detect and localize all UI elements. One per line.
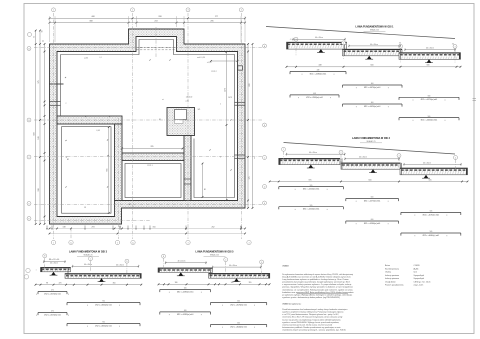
left dimension row 1 bbox=[34, 30, 37, 225]
svg-text:SKALA 1:25: SKALA 1:25 bbox=[83, 254, 92, 257]
svg-text:4: 4 bbox=[454, 46, 455, 48]
level marks bbox=[35, 157, 255, 272]
section S1 rebar 5 bbox=[343, 102, 403, 108]
wall opening dashed lines at top bump bbox=[137, 47, 177, 50]
section S3 beam junctions and end caps bbox=[41, 267, 142, 278]
svg-text:600: 600 bbox=[371, 65, 374, 67]
notes heading bbox=[282, 264, 289, 267]
svg-text:44: 44 bbox=[119, 226, 121, 228]
svg-text:posadowienia law przyjeto wg p: posadowienia law przyjeto wg przekrojow.… bbox=[282, 281, 350, 284]
svg-text:98: 98 bbox=[46, 283, 48, 285]
right dimension row bbox=[247, 43, 251, 209]
svg-text:Poziom posadowienia: Poziom posadowienia bbox=[385, 285, 404, 287]
axis vertical wall C bbox=[117, 118, 119, 239]
svg-text:40 x 20cm: 40 x 20cm bbox=[116, 264, 124, 266]
axis vertical 1 bbox=[53, 13, 55, 239]
section S2 support 3 bbox=[422, 175, 430, 178]
internal dimension lower-left room bbox=[107, 126, 110, 214]
section S4 rebar 3 bbox=[160, 310, 211, 316]
svg-text:Ø12 x +4520(m) mk1: Ø12 x +4520(m) mk1 bbox=[303, 209, 320, 211]
svg-text:po wykonaniu wykopu. Wykopy od: po wykonaniu wykopu. Wykopy odbierac kom… bbox=[282, 293, 352, 296]
svg-text:wzgl. -1,0m: wzgl. -1,0m bbox=[414, 285, 424, 287]
svg-text:40 x 20cm: 40 x 20cm bbox=[359, 157, 367, 159]
section S4 beam junctions and end caps bbox=[158, 268, 270, 278]
exterior foundation wall band bbox=[50, 29, 246, 224]
section S3 dims above beams bbox=[43, 259, 139, 268]
svg-text:1473: 1473 bbox=[228, 97, 232, 99]
svg-text:Ø12 x +4570(m) mk1: Ø12 x +4570(m) mk1 bbox=[44, 314, 61, 316]
svg-text:Ø12 x +4570(m) mk1: Ø12 x +4570(m) mk1 bbox=[44, 293, 61, 295]
svg-text:600: 600 bbox=[371, 197, 374, 199]
svg-text:310: 310 bbox=[153, 226, 156, 228]
svg-text:140: 140 bbox=[231, 282, 234, 284]
joint marks left wall bbox=[49, 102, 61, 106]
axis vertical 2 bbox=[132, 13, 134, 239]
svg-text:285: 285 bbox=[151, 146, 154, 148]
svg-text:LAWA FUNDAMENTOWA W OSI 1: LAWA FUNDAMENTOWA W OSI 1 bbox=[356, 25, 395, 28]
margin level circles S3 bbox=[24, 268, 30, 279]
left dimension row 3 bbox=[44, 43, 46, 225]
svg-text:368: 368 bbox=[89, 21, 92, 23]
section S1 beam segment 2 bbox=[343, 49, 403, 56]
section S4 title bbox=[196, 251, 235, 257]
svg-text:40 x 20cm: 40 x 20cm bbox=[309, 152, 317, 154]
section S4 dimension row bbox=[158, 282, 271, 285]
svg-text:1: 1 bbox=[53, 10, 54, 12]
section S2 title bbox=[352, 137, 391, 143]
materials table bbox=[385, 264, 431, 287]
svg-text:40 x 20cm: 40 x 20cm bbox=[426, 48, 434, 50]
section S2 dims above beams bbox=[286, 152, 462, 166]
room outline big room bbox=[61, 40, 235, 198]
svg-text:LAWA FUNDAMENTOWA W OSI 5: LAWA FUNDAMENTOWA W OSI 5 bbox=[196, 251, 235, 254]
notes paragraph 2 bbox=[282, 308, 348, 332]
section S3 axis circles bbox=[43, 254, 129, 274]
svg-text:98: 98 bbox=[42, 31, 44, 33]
svg-text:330: 330 bbox=[38, 188, 40, 191]
svg-text:4: 4 bbox=[241, 10, 242, 12]
section S2 support 2 bbox=[369, 169, 377, 172]
svg-text:SKALA 1:25: SKALA 1:25 bbox=[370, 29, 379, 32]
svg-text:Ø12 x +4570(m) mk1: Ø12 x +4570(m) mk1 bbox=[421, 99, 438, 101]
svg-text:2xpapa/lepik: 2xpapa/lepik bbox=[414, 278, 425, 280]
svg-text:C16/20: C16/20 bbox=[414, 265, 420, 267]
svg-text:3: 3 bbox=[187, 242, 188, 244]
svg-text:293: 293 bbox=[92, 226, 95, 228]
svg-text:730: 730 bbox=[102, 301, 105, 303]
svg-text:40 x 20cm: 40 x 20cm bbox=[229, 265, 237, 267]
svg-text:40 x 20cm: 40 x 20cm bbox=[315, 37, 323, 39]
svg-text:2xpapa/lepik: 2xpapa/lepik bbox=[414, 275, 425, 277]
section S4 dims above beams bbox=[165, 261, 262, 269]
section S1 support 2 bbox=[365, 56, 373, 59]
svg-text:40 x 20cm: 40 x 20cm bbox=[423, 162, 431, 164]
interior wall D horizontal bbox=[122, 153, 184, 161]
svg-text:LAWA FUNDAMENTOWA W OSI 2: LAWA FUNDAMENTOWA W OSI 2 bbox=[352, 137, 391, 140]
internal dimension top right bbox=[210, 60, 238, 62]
axis vertical wall A bbox=[70, 228, 72, 239]
section S1 rebar 4 bbox=[399, 96, 459, 102]
svg-text:Ø12 x +4570(m) mk1: Ø12 x +4570(m) mk1 bbox=[230, 304, 247, 306]
section S3 rebar 3 bbox=[37, 311, 69, 317]
svg-text:175: 175 bbox=[249, 177, 251, 180]
section S2 beam segment 3 bbox=[400, 168, 468, 175]
axis horizontal D bbox=[34, 203, 262, 205]
svg-text:448: 448 bbox=[317, 70, 320, 72]
svg-text:UWAGI:: UWAGI: bbox=[282, 264, 289, 267]
section S1 dims above beams bbox=[290, 37, 456, 51]
svg-text:277: 277 bbox=[215, 16, 218, 18]
svg-text:448: 448 bbox=[319, 65, 322, 67]
svg-text:375: 375 bbox=[38, 80, 40, 83]
svg-text:138: 138 bbox=[63, 226, 66, 228]
svg-text:Ø12 x +4670(m) mk1: Ø12 x +4670(m) mk1 bbox=[364, 87, 381, 89]
svg-text:Przed betonowaniem law fundame: Przed betonowaniem law fundamentowych na… bbox=[282, 308, 348, 311]
svg-text:600: 600 bbox=[369, 179, 372, 181]
svg-text:SKALA 1:25: SKALA 1:25 bbox=[210, 254, 219, 257]
svg-text:2: 2 bbox=[66, 103, 67, 105]
svg-text:skontaktowac sie z projektante: skontaktowac sie z projektantem. Roboty … bbox=[282, 288, 353, 291]
svg-text:4: 4 bbox=[455, 157, 456, 159]
svg-text:408: 408 bbox=[91, 16, 94, 18]
section S3 dimension row bbox=[35, 283, 143, 286]
internal dimension middle bbox=[121, 146, 183, 149]
svg-text:B3: B3 bbox=[129, 204, 131, 206]
svg-text:600: 600 bbox=[371, 83, 374, 85]
svg-text:zgodnie z norma PN-B-06050. Wy: zgodnie z norma PN-B-06050. Wykopy chron… bbox=[282, 321, 339, 324]
room outline lower-left room bbox=[62, 127, 112, 214]
section S1 support 3 bbox=[425, 59, 433, 62]
svg-text:-1,05: -1,05 bbox=[96, 130, 100, 132]
section S2 rebar 3 bbox=[279, 205, 344, 211]
section S1 rebar 3 bbox=[290, 93, 339, 99]
svg-text:Ø12 x +4640(m) mk1: Ø12 x +4640(m) mk1 bbox=[423, 235, 440, 237]
svg-text:30: 30 bbox=[240, 226, 242, 228]
section S3 rebar 2 bbox=[67, 301, 140, 307]
svg-text:505: 505 bbox=[430, 211, 433, 213]
axis horizontal A bbox=[34, 47, 262, 49]
svg-text:2: 2 bbox=[220, 104, 221, 106]
interior wall D-prime horizontal bbox=[57, 116, 122, 124]
svg-text:Ø12 x +4655(m) mk1: Ø12 x +4655(m) mk1 bbox=[95, 325, 112, 327]
svg-text:262: 262 bbox=[212, 226, 215, 228]
section S2 axis circles bbox=[282, 147, 458, 171]
svg-text:Ø12 x +4640(m) mk1: Ø12 x +4640(m) mk1 bbox=[230, 326, 247, 328]
svg-text:600: 600 bbox=[249, 84, 251, 87]
svg-text:600: 600 bbox=[371, 102, 374, 104]
svg-text:470: 470 bbox=[59, 283, 62, 285]
section S3 title bbox=[69, 251, 108, 257]
section S3 rebar 4 bbox=[67, 322, 140, 328]
svg-text:Do wykonania elementow zelbeto: Do wykonania elementow zelbetowych uzywa… bbox=[282, 273, 353, 276]
svg-text:(A-III): (A-III) bbox=[414, 267, 419, 270]
room outline middle room bbox=[125, 164, 181, 198]
svg-text:-0,85: -0,85 bbox=[185, 100, 189, 102]
svg-text:140x140: 140x140 bbox=[186, 97, 193, 99]
axis vertical 3 bbox=[187, 13, 189, 239]
section S1 beam segment 1 bbox=[287, 42, 347, 49]
fold marks right frame bbox=[473, 98, 477, 100]
section S2 rebar 1 bbox=[279, 185, 344, 191]
section S3 rebar 1 bbox=[37, 290, 69, 296]
svg-text:620: 620 bbox=[184, 310, 187, 312]
svg-text:2: 2 bbox=[117, 242, 118, 244]
section S4 rebar 2 bbox=[211, 301, 267, 307]
svg-text:595: 595 bbox=[310, 205, 313, 207]
svg-text:pionowa z dysperbitu. Wszystki: pionowa z dysperbitu. Wszystkie wymiary … bbox=[282, 286, 353, 289]
svg-text:Beton: Beton bbox=[385, 264, 390, 267]
section S3 support 2 bbox=[98, 278, 106, 281]
right dimension row 2 bbox=[252, 43, 254, 209]
section S2 beam junctions and end caps bbox=[279, 158, 468, 175]
svg-text:ostatnia warstwe gruntu (ok. 1: ostatnia warstwe gruntu (ok. 10cm) usuna… bbox=[282, 324, 332, 327]
section S4 rebar 4 bbox=[211, 323, 267, 329]
svg-text:C8/10 gr. min. 10cm: C8/10 gr. min. 10cm bbox=[414, 280, 431, 283]
svg-text:620: 620 bbox=[184, 288, 187, 290]
svg-text:470: 470 bbox=[51, 290, 54, 292]
pier block bbox=[167, 97, 195, 136]
svg-text:Izolacja pozioma: Izolacja pozioma bbox=[385, 275, 400, 277]
svg-text:▸: ▸ bbox=[254, 157, 255, 160]
svg-text:stwierdzenia innych warunkow g: stwierdzenia innych warunkow gruntowych … bbox=[282, 329, 346, 332]
svg-text:3: 3 bbox=[187, 10, 188, 12]
joint marks wall E bbox=[184, 179, 192, 184]
top dimension row 2 bbox=[49, 21, 246, 24]
svg-text:505: 505 bbox=[430, 231, 433, 233]
axis circles top bbox=[52, 8, 244, 12]
svg-text:285: 285 bbox=[210, 21, 213, 23]
interior wall E vertical bbox=[184, 136, 191, 201]
extra left circle bbox=[28, 33, 32, 37]
svg-text:Ø12 x +4580(m) mk1: Ø12 x +4580(m) mk1 bbox=[306, 97, 323, 99]
svg-text:W1: W1 bbox=[198, 109, 201, 111]
section S1 terrain line bbox=[266, 27, 455, 39]
svg-text:186: 186 bbox=[175, 282, 178, 284]
section S4 support 2 bbox=[233, 278, 241, 281]
svg-text:4: 4 bbox=[248, 242, 249, 244]
svg-text:730: 730 bbox=[102, 322, 105, 324]
joint line left wall upper bbox=[49, 83, 64, 85]
section S2 rebar 4 bbox=[401, 211, 461, 217]
section S4 beam segment 1 bbox=[158, 268, 213, 273]
svg-text:448: 448 bbox=[313, 93, 316, 95]
section S2 rebar 6 bbox=[401, 231, 461, 237]
axis horizontal E bbox=[34, 219, 150, 221]
section S1 support 1 bbox=[317, 49, 325, 52]
svg-text:580: 580 bbox=[428, 96, 431, 98]
notes paragraph 1 bbox=[282, 273, 353, 299]
section S1 rebar 2 bbox=[343, 83, 403, 89]
axis horizontal C bbox=[34, 156, 262, 158]
section S1 axis circles bbox=[294, 37, 457, 62]
internal dimension right room bbox=[202, 163, 204, 198]
svg-text:Chudy beton: Chudy beton bbox=[385, 280, 396, 283]
svg-text:40 x 20cm: 40 x 20cm bbox=[50, 263, 58, 265]
svg-text:UWAGI do wykonania:: UWAGI do wykonania: bbox=[282, 303, 301, 306]
svg-text:75: 75 bbox=[34, 36, 36, 38]
section S3 beam segment 2 bbox=[65, 274, 141, 279]
axis horizontal B bbox=[34, 119, 262, 121]
svg-text:nakl. 0,50: nakl. 0,50 bbox=[197, 57, 205, 59]
svg-text:470: 470 bbox=[51, 311, 54, 313]
svg-text:↕5: ↕5 bbox=[290, 39, 292, 41]
svg-text:350: 350 bbox=[113, 283, 116, 285]
section S1 dimension row bbox=[286, 65, 462, 68]
section S2 dimension row bbox=[269, 179, 469, 182]
svg-text:0,1: 0,1 bbox=[99, 57, 101, 59]
svg-text:268: 268 bbox=[158, 16, 161, 18]
section S2 rebar 5 bbox=[346, 219, 399, 225]
svg-text:1473: 1473 bbox=[224, 88, 226, 92]
axis circles bottom bbox=[51, 240, 251, 244]
svg-text:+0,20: +0,20 bbox=[207, 62, 212, 64]
svg-text:Ø12 x +4580(m) mk1: Ø12 x +4580(m) mk1 bbox=[310, 73, 327, 75]
arrow marks below bottom wall bbox=[46, 226, 242, 231]
section S3 beam segment 1 bbox=[41, 267, 71, 272]
svg-text:40 x 20cm: 40 x 20cm bbox=[370, 44, 378, 46]
svg-text:klasy A-III (34GS) oraz strzem: klasy A-III (34GS) oraz strzemion ze sta… bbox=[282, 275, 351, 278]
svg-text:2: 2 bbox=[343, 43, 344, 45]
svg-text:S1: S1 bbox=[159, 119, 161, 121]
svg-text:55: 55 bbox=[43, 40, 45, 42]
svg-text:strzemiona fi6 co 30cm. W miej: strzemiona fi6 co 30cm. W miejscach krzy… bbox=[282, 316, 342, 319]
joint marks right wall bbox=[220, 102, 245, 158]
left dimension row 2 bbox=[38, 30, 45, 225]
section S4 axis circles bbox=[162, 254, 264, 275]
axis bump centerline bbox=[155, 27, 157, 57]
svg-text:POZ.2: POZ.2 bbox=[211, 71, 216, 73]
svg-text:Ø12 x +4585(m) mk1: Ø12 x +4585(m) mk1 bbox=[177, 314, 194, 316]
svg-text:laczace wg rysunku szczegolowe: laczace wg rysunku szczegolowego. Dopusz… bbox=[282, 318, 341, 321]
svg-text:1: 1 bbox=[283, 149, 284, 151]
section S2 support 1 bbox=[307, 165, 315, 168]
svg-text:560: 560 bbox=[237, 323, 240, 325]
section S2 rebar 2 bbox=[346, 197, 399, 203]
svg-text:40 x 20cm: 40 x 20cm bbox=[84, 264, 92, 266]
svg-text:355: 355 bbox=[249, 282, 252, 284]
svg-text:920: 920 bbox=[34, 132, 36, 135]
svg-text:203: 203 bbox=[154, 21, 157, 23]
svg-text:Ø12 x +4520(m) mk1: Ø12 x +4520(m) mk1 bbox=[303, 189, 320, 191]
svg-text:LAWA FUNDAMENTOWA W OSI 3: LAWA FUNDAMENTOWA W OSI 3 bbox=[69, 251, 108, 254]
interior wall C vertical bbox=[115, 124, 123, 201]
svg-text:600: 600 bbox=[371, 219, 374, 221]
section S4 beam segment 2 bbox=[209, 273, 270, 278]
svg-text:180: 180 bbox=[38, 136, 40, 139]
svg-text:Stal zbrojeniowa: Stal zbrojeniowa bbox=[385, 267, 400, 270]
svg-text:560: 560 bbox=[237, 301, 240, 303]
section S1 title bbox=[356, 25, 395, 31]
svg-text:580: 580 bbox=[427, 65, 430, 67]
svg-text:505: 505 bbox=[429, 179, 432, 181]
internal dimension big room bbox=[224, 51, 227, 201]
section S3 support 1 bbox=[50, 272, 58, 275]
svg-text:3: 3 bbox=[398, 155, 399, 157]
plan annotations bbox=[67, 57, 232, 206]
section S2 terrain line bbox=[284, 143, 456, 155]
niche in right wall bbox=[238, 66, 243, 70]
section S1 beam junctions and end caps bbox=[287, 42, 461, 59]
notes heading 2 bbox=[282, 303, 301, 306]
svg-text:Ø8 a-15 L=96: Ø8 a-15 L=96 bbox=[49, 259, 59, 261]
svg-text:5cm: 5cm bbox=[414, 272, 418, 274]
section S2 beam segment 2 bbox=[341, 163, 400, 169]
svg-text:40 x 20cm: 40 x 20cm bbox=[178, 261, 186, 263]
section S4 support 1 bbox=[177, 272, 185, 275]
svg-text:Ø12 x +4585(m) mk1: Ø12 x +4585(m) mk1 bbox=[177, 291, 194, 293]
svg-text:Izolacja pionowa: Izolacja pionowa bbox=[385, 278, 400, 280]
top extension lines bbox=[50, 16, 246, 42]
svg-text:↕: ↕ bbox=[35, 268, 36, 271]
section S1 rebar 1 bbox=[290, 70, 346, 76]
svg-text:2: 2 bbox=[340, 152, 341, 154]
section S1 rebar 6 bbox=[399, 116, 459, 122]
svg-text:2: 2 bbox=[132, 10, 133, 12]
svg-text:580: 580 bbox=[428, 116, 431, 118]
svg-text:Otulina: Otulina bbox=[385, 271, 392, 274]
svg-text:595: 595 bbox=[309, 179, 312, 181]
svg-text:Ø12 x +4655(m) mk1: Ø12 x +4655(m) mk1 bbox=[95, 304, 112, 306]
top dimension row 1 bbox=[49, 16, 246, 19]
small tick specks in rooms bbox=[65, 57, 232, 209]
section S4 rebar 1 bbox=[160, 288, 211, 294]
svg-text:Ø12 x +4575(m) mk1: Ø12 x +4575(m) mk1 bbox=[364, 200, 381, 202]
svg-text:595: 595 bbox=[310, 185, 313, 187]
axis circles left bbox=[27, 47, 31, 221]
bottom dimension row 2 bbox=[49, 233, 246, 235]
svg-text:605: 605 bbox=[107, 169, 109, 172]
section S2 beam segment 1 bbox=[279, 158, 340, 164]
svg-text:Ø12 x +4560(m) mk1: Ø12 x +4560(m) mk1 bbox=[364, 223, 381, 225]
axis vertical 4 bbox=[240, 13, 242, 239]
svg-text:B1: B1 bbox=[204, 189, 206, 191]
svg-text:z zageszczeniem. Izolacje pozi: z zageszczeniem. Izolacje pozioma wykona… bbox=[282, 283, 351, 286]
svg-text:-0,35: -0,35 bbox=[84, 58, 88, 60]
svg-text:SKALA 1:25: SKALA 1:25 bbox=[366, 140, 375, 143]
bottom dimension row 1 bbox=[49, 226, 246, 229]
axis circles right bbox=[263, 44, 267, 205]
svg-text:POZ.1: POZ.1 bbox=[147, 165, 152, 167]
svg-text:zgodnosc gruntu z dokumentacja: zgodnosc gruntu z dokumentacja badan pod… bbox=[282, 296, 340, 299]
svg-text:B2: B2 bbox=[67, 159, 69, 161]
svg-text:Ø12 x +4620(m) mk1: Ø12 x +4620(m) mk1 bbox=[364, 106, 381, 108]
section S1 beam segment 3 bbox=[399, 53, 461, 60]
svg-text:zgodnie z projektem instalacji: zgodnie z projektem instalacji elektrycz… bbox=[282, 311, 343, 314]
svg-text:98: 98 bbox=[84, 207, 86, 209]
svg-text:Ø12 x +4570(m) mk1: Ø12 x +4570(m) mk1 bbox=[423, 214, 440, 216]
svg-text:1: 1 bbox=[53, 242, 54, 244]
svg-text:Ø12 x +4640(m) mk1: Ø12 x +4640(m) mk1 bbox=[421, 120, 438, 122]
